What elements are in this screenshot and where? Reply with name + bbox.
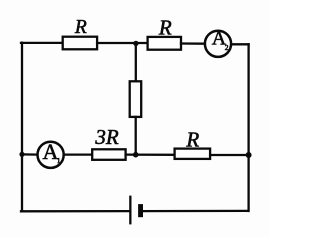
resistor R3 (vertical) [130,81,142,117]
resistor R5 [175,149,211,159]
svg-text:1: 1 [57,156,61,165]
wire (R1 to node N1) [97,42,148,44]
ammeter A1 (circle body) [38,142,64,168]
wire (R4 through node N2 to R5) [126,153,175,155]
battery BT1 (long plate) [129,196,131,225]
wire (right vertical side) [247,44,249,211]
battery BT1 (short thick plate) [138,204,143,217]
node N1 (top junction) [133,41,138,46]
svg-text:2: 2 [225,43,229,52]
wire (left vertical side) [21,43,23,212]
wire (R3 down to node N2) [135,117,137,155]
wire (bottom, left corner to battery) [21,210,129,212]
wire (A1 to resistor R4) [64,153,92,155]
svg-text:R: R [158,16,172,40]
wire (R5 to right junction N3) [210,154,249,156]
wire (battery to bottom-right corner) [143,210,248,213]
resistor R2 [148,37,181,50]
wire (left junction to ammeter A1) [22,153,38,156]
wire (top, left corner to R1) [21,42,63,44]
node N4 (left-middle junction) [19,152,24,157]
wire (R2 to ammeter A2) [181,42,205,45]
svg-text:R: R [74,17,87,38]
ammeter A2 (circle body) [205,31,231,57]
wire (A2 to top-right corner) [232,43,249,45]
wire (middle branch, node N1 down to R3) [135,43,137,82]
svg-text:3R: 3R [94,125,119,149]
node N2 (middle junction) [133,152,139,158]
resistor R4 (3R) [92,149,125,160]
resistor R1 [63,37,97,50]
node N3 (right-middle junction) [246,152,252,158]
svg-text:R: R [185,127,199,151]
